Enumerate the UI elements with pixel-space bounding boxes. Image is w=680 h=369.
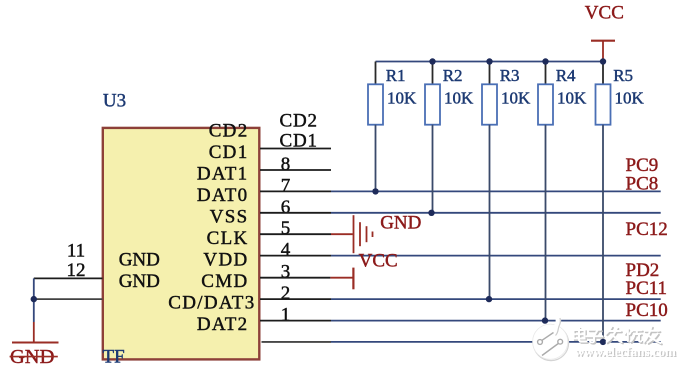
resistor R2 bbox=[425, 62, 474, 213]
svg-text:PC12: PC12 bbox=[626, 219, 668, 240]
resistor R4 bbox=[538, 62, 587, 321]
wire pin 5 stub bbox=[260, 233, 331, 235]
svg-text:7: 7 bbox=[281, 175, 291, 196]
svg-text:3: 3 bbox=[281, 262, 291, 283]
svg-text:R3: R3 bbox=[500, 66, 520, 85]
wire pin CD1 stub bbox=[260, 148, 331, 150]
junction dot R3/pin2 bbox=[486, 296, 492, 302]
svg-text:VDD: VDD bbox=[203, 250, 248, 271]
resistor R3 bbox=[482, 62, 531, 300]
junction dot rail/R2 bbox=[429, 58, 435, 64]
wire pin 7 to PC8 bbox=[260, 190, 661, 192]
svg-text:VCC: VCC bbox=[585, 3, 624, 24]
svg-text:U3: U3 bbox=[103, 91, 126, 112]
svg-text:10K: 10K bbox=[557, 88, 587, 107]
junction dot rail/R5-VCC bbox=[600, 58, 606, 64]
svg-text:CD2: CD2 bbox=[209, 121, 249, 142]
svg-text:10K: 10K bbox=[615, 88, 645, 107]
chip U3 body bbox=[103, 128, 259, 360]
resistor R1 bbox=[368, 62, 417, 192]
svg-text:CMD: CMD bbox=[201, 271, 248, 292]
junction dot R4/pin1 bbox=[542, 317, 548, 323]
chip U3 part type TF bbox=[103, 347, 125, 368]
svg-text:CD/DAT3: CD/DAT3 bbox=[168, 293, 255, 314]
svg-text:R4: R4 bbox=[556, 66, 576, 85]
svg-text:10K: 10K bbox=[444, 88, 474, 107]
wire pin 4 VCC net bbox=[260, 255, 661, 257]
svg-text:1: 1 bbox=[281, 305, 291, 326]
svg-text:CLK: CLK bbox=[207, 228, 249, 249]
svg-text:10K: 10K bbox=[387, 88, 417, 107]
ground symbol (sideways, at pin 5) bbox=[331, 215, 373, 253]
watermark chinese text bbox=[574, 327, 662, 345]
svg-text:5: 5 bbox=[281, 218, 291, 239]
junction dot left bbox=[31, 296, 37, 302]
wire bottom pin to R5 bbox=[262, 341, 661, 343]
svg-text:4: 4 bbox=[281, 240, 291, 261]
svg-text:PC11: PC11 bbox=[626, 278, 668, 299]
power symbol VCC (sideways, at pin 3) bbox=[330, 268, 353, 290]
chip U3 reference designator bbox=[103, 91, 126, 112]
svg-text:DAT2: DAT2 bbox=[197, 314, 249, 335]
junction dot rail/R3 bbox=[486, 58, 492, 64]
wire left vertical to ground bbox=[33, 278, 35, 322]
wire pin 1 to PC10 bbox=[260, 320, 661, 322]
junction dot R1/pin7 bbox=[372, 188, 378, 194]
wire pin 3 stub bbox=[260, 277, 330, 279]
svg-text:GND: GND bbox=[119, 271, 160, 292]
svg-text:GND: GND bbox=[119, 250, 160, 271]
svg-text:2: 2 bbox=[281, 283, 291, 304]
svg-text:DAT0: DAT0 bbox=[197, 185, 249, 206]
wire pin 6 GND net bbox=[260, 212, 661, 214]
svg-text:11: 11 bbox=[67, 241, 85, 262]
svg-text:CD2: CD2 bbox=[280, 111, 318, 132]
svg-text:12: 12 bbox=[67, 260, 86, 281]
svg-text:R2: R2 bbox=[443, 66, 463, 85]
svg-text:R5: R5 bbox=[613, 66, 633, 85]
svg-text:R1: R1 bbox=[386, 66, 406, 85]
svg-text:6: 6 bbox=[281, 197, 291, 218]
svg-text:8: 8 bbox=[281, 154, 291, 175]
wire pin 12 bbox=[34, 298, 103, 300]
svg-text:www.elecfans.com: www.elecfans.com bbox=[575, 344, 676, 359]
watermark logo bbox=[533, 318, 569, 361]
wire pin 11 bbox=[34, 277, 103, 279]
junction dot rail/R4 bbox=[542, 58, 548, 64]
junction dot R2/pin6 bbox=[428, 210, 434, 216]
power rail VCC top bbox=[376, 61, 604, 63]
power symbol VCC (top) bbox=[585, 3, 624, 62]
svg-text:VSS: VSS bbox=[210, 207, 249, 228]
junction dot R5/bottom wire bbox=[600, 339, 606, 345]
svg-text:10K: 10K bbox=[501, 88, 531, 107]
svg-text:PC10: PC10 bbox=[626, 300, 668, 321]
svg-text:CD1: CD1 bbox=[209, 142, 249, 163]
svg-text:PC8: PC8 bbox=[626, 173, 659, 194]
svg-text:VCC: VCC bbox=[359, 250, 398, 271]
wire pin 2 to PC11 bbox=[260, 298, 661, 300]
svg-text:DAT1: DAT1 bbox=[197, 164, 249, 185]
wire pin 8 stub bbox=[260, 169, 331, 171]
ground symbol GND (bottom left) bbox=[10, 322, 59, 368]
svg-text:TF: TF bbox=[103, 347, 125, 368]
resistor R5 bbox=[596, 62, 645, 342]
svg-text:GND: GND bbox=[380, 212, 421, 233]
watermark url text bbox=[575, 344, 677, 360]
